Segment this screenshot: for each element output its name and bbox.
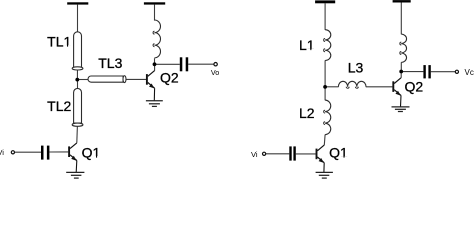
terminal Vi (left) <box>11 151 14 154</box>
wire <box>324 3 326 30</box>
terminal Vo <box>214 62 217 65</box>
svg-text:L3: L3 <box>348 60 364 76</box>
wire <box>126 78 146 80</box>
transistor Q2 (left) <box>147 71 155 101</box>
svg-text:Vi: Vi <box>251 150 258 159</box>
VCC rail bar (right, above L1) <box>315 0 335 3</box>
svg-text:L2: L2 <box>299 105 315 121</box>
wire <box>403 71 424 73</box>
capacitor input right <box>289 146 296 160</box>
transistor Q2 (right) <box>393 78 401 107</box>
wire <box>156 63 180 65</box>
ground (Q1 right) <box>316 172 333 178</box>
svg-text:Vo: Vo <box>211 68 219 77</box>
inductor above Q2 left <box>155 20 161 58</box>
wire <box>296 153 316 155</box>
wire <box>400 3 402 35</box>
wire <box>324 60 326 87</box>
svg-text:Vi: Vi <box>0 148 4 157</box>
wire <box>323 135 326 146</box>
transmission line TL3 <box>88 76 126 83</box>
capacitor output left <box>180 57 188 71</box>
wire <box>15 151 42 153</box>
VCC rail bar (right, above coil) <box>393 0 411 2</box>
inductor L1 <box>325 30 331 61</box>
svg-text:Q2: Q2 <box>160 70 179 86</box>
capacitor input left <box>41 146 49 160</box>
svg-text:TL1: TL1 <box>47 33 71 49</box>
node dot TL1/TL2/TL3 junction <box>75 78 79 82</box>
svg-text:Q2: Q2 <box>404 78 423 94</box>
capacitor output right <box>423 65 430 78</box>
terminal Vc <box>455 70 458 73</box>
svg-text:TL2: TL2 <box>47 98 71 114</box>
svg-text:Vc: Vc <box>465 68 474 77</box>
wire <box>400 62 402 71</box>
inductor L2 <box>325 100 331 135</box>
transistor Q1 (left) <box>69 143 77 173</box>
terminal Vi (right) <box>263 152 266 155</box>
wire <box>77 81 79 90</box>
VCC rail bar (left, above TL1) <box>67 2 88 4</box>
transistor Q1 (right) <box>317 145 325 172</box>
inductor above Q2 right <box>401 34 406 62</box>
VCC rail bar (left, above coil) <box>144 2 165 4</box>
wire <box>400 73 402 78</box>
inductor L3 <box>338 81 366 87</box>
ground (Q2 left) <box>146 101 163 107</box>
wire <box>154 58 156 64</box>
wire <box>154 5 156 21</box>
wire <box>188 63 214 65</box>
wire <box>366 86 393 88</box>
wire <box>327 86 339 88</box>
svg-text:TL3: TL3 <box>98 55 122 71</box>
transmission line TL1 <box>72 32 83 70</box>
node dot Q2 left collector <box>153 62 157 66</box>
wire <box>76 65 78 79</box>
wire <box>77 79 89 81</box>
wire <box>324 89 326 101</box>
wire <box>266 153 290 155</box>
node dot Q2 right collector <box>399 70 403 74</box>
wire <box>77 5 79 33</box>
wire <box>49 151 68 153</box>
ground (Q1 left) <box>66 172 84 178</box>
wire <box>154 66 156 71</box>
wire <box>431 71 456 73</box>
ground (Q2 right) <box>392 107 410 112</box>
node dot L1/L2/L3 junction <box>323 85 327 89</box>
transmission line TL2 <box>72 88 83 126</box>
wire <box>76 126 79 143</box>
